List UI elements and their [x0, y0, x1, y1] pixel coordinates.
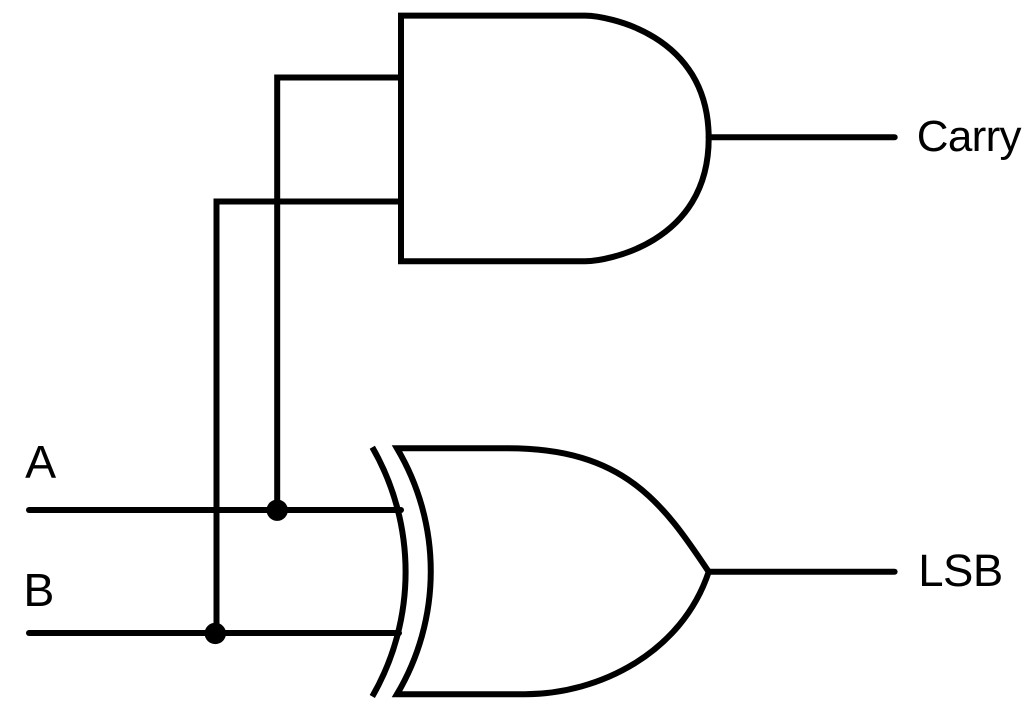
- wire: XOR output to LSB: [709, 569, 895, 575]
- wire: AND output to Carry: [709, 134, 895, 140]
- wire: A branch up to AND gate top input: [277, 78, 401, 511]
- wire: input A horizontal: [29, 507, 401, 513]
- XOR gate body (LSB): [397, 448, 709, 694]
- wire: input B horizontal: [29, 630, 399, 636]
- XOR extra input arc: [372, 447, 405, 696]
- junction dot on node A: [267, 500, 288, 521]
- svg-text:B: B: [23, 564, 54, 616]
- svg-text:A: A: [25, 436, 56, 488]
- svg-text:LSB: LSB: [918, 545, 1002, 596]
- wire: B branch up to AND gate bottom input: [217, 202, 402, 634]
- junction dot on node B: [205, 623, 226, 644]
- svg-text:Carry: Carry: [917, 112, 1022, 161]
- AND gate (Carry): [401, 16, 709, 262]
